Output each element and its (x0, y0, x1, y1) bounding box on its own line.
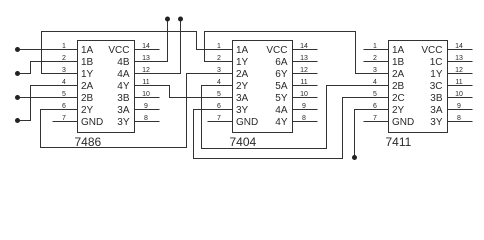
U3 pin 11 (3C) stub (448, 85, 473, 87)
U2 pin 13 (6A) stub (293, 61, 318, 63)
U1 pin 4 (2A) stub (53, 85, 78, 87)
U3 pin 5 (2C) stub (364, 97, 389, 99)
input terminal B2 dot (15, 95, 20, 100)
svg-text:6: 6 (373, 103, 377, 110)
svg-text:4: 4 (217, 79, 221, 86)
U1 pin 11 (4Y) stub (135, 85, 160, 87)
IC U3 7411 body (389, 41, 448, 133)
U3 pin 7 (GND) stub (364, 121, 389, 123)
top terminal T1 dot (165, 17, 170, 22)
svg-text:7: 7 (217, 115, 221, 122)
svg-text:2: 2 (217, 55, 221, 62)
wire input A2 to U1 pin 4 (2A) (18, 86, 78, 121)
wire input B2 to U1 pin 5 (2B) (18, 97, 78, 99)
svg-text:6Y: 6Y (275, 69, 288, 80)
U1 pin 9 (3A) stub (135, 109, 160, 111)
svg-text:6A: 6A (275, 57, 288, 68)
svg-text:10: 10 (300, 91, 308, 98)
svg-text:11: 11 (142, 79, 149, 86)
svg-text:7: 7 (373, 115, 377, 122)
svg-text:2B: 2B (81, 93, 94, 104)
svg-text:12: 12 (455, 67, 463, 74)
IC U2 7404 body (233, 41, 293, 133)
svg-text:6: 6 (62, 103, 66, 110)
wire U2 pin 6 (3Y) to U3 pin 5 (2C) (194, 98, 389, 159)
wire U1 pin 11 (4Y) to U2 pin 5 (3A) (135, 86, 233, 98)
svg-text:5: 5 (373, 91, 377, 98)
U2 pin 1 (1A) stub (208, 49, 233, 51)
input terminal A2 dot (15, 118, 20, 123)
svg-text:4B: 4B (117, 57, 130, 68)
svg-text:1A: 1A (236, 45, 249, 56)
svg-text:12: 12 (300, 67, 308, 74)
svg-text:3Y: 3Y (117, 117, 130, 128)
svg-text:2Y: 2Y (392, 105, 405, 116)
U1 pin 3 (1Y) stub (53, 73, 78, 75)
svg-text:1Y: 1Y (236, 57, 249, 68)
svg-text:3B: 3B (430, 93, 443, 104)
svg-text:1A: 1A (81, 45, 94, 56)
U3 pin 4 (2B) stub (364, 85, 389, 87)
U3 pin 2 (1B) stub (364, 61, 389, 63)
svg-text:4: 4 (373, 79, 377, 86)
svg-text:GND: GND (392, 117, 414, 128)
svg-text:3A: 3A (430, 105, 443, 116)
svg-text:GND: GND (81, 117, 103, 128)
svg-text:13: 13 (142, 55, 150, 62)
svg-text:7: 7 (62, 115, 66, 122)
svg-text:10: 10 (455, 91, 463, 98)
U2 pin 4 (2Y) stub (208, 85, 233, 87)
svg-text:7411: 7411 (386, 135, 412, 149)
wire input B1 to U1 pin 2 (1B) (18, 62, 78, 74)
wire U1 pin 6 (2Y) to U2 pin 3 (2A) (41, 74, 233, 148)
svg-text:2C: 2C (392, 93, 405, 104)
U3 pin 3 (2A) stub (364, 73, 389, 75)
svg-text:3: 3 (62, 67, 66, 74)
wire U2 pin 2 (1Y) to U3 pin 3 (2A) (205, 32, 389, 74)
svg-text:9: 9 (144, 103, 148, 110)
svg-text:6: 6 (217, 103, 221, 110)
U1 pin 14 (VCC) stub (135, 49, 160, 51)
svg-text:3B: 3B (117, 93, 130, 104)
svg-text:2A: 2A (392, 69, 405, 80)
U1 pin 12 (4A) stub (135, 73, 160, 75)
wire U2 pin 4 (2Y) to U3 pin 4 (2B) (202, 86, 389, 149)
svg-text:1: 1 (217, 43, 221, 50)
svg-text:9: 9 (302, 103, 306, 110)
U2 pin 2 (1Y) stub (208, 61, 233, 63)
svg-text:3Y: 3Y (236, 105, 249, 116)
svg-text:2A: 2A (81, 81, 94, 92)
svg-text:1A: 1A (392, 45, 405, 56)
svg-text:GND: GND (236, 117, 258, 128)
svg-text:8: 8 (302, 115, 306, 122)
U2 pin 6 (3Y) stub (208, 109, 233, 111)
svg-text:4A: 4A (275, 105, 288, 116)
svg-text:4Y: 4Y (117, 81, 130, 92)
svg-text:13: 13 (300, 55, 308, 62)
svg-text:8: 8 (457, 115, 461, 122)
wire node T2 to U1 pin 12 (4A) (135, 19, 181, 74)
svg-text:4A: 4A (117, 69, 130, 80)
svg-text:4Y: 4Y (275, 117, 288, 128)
svg-text:14: 14 (300, 43, 308, 50)
U3 pin 8 (3Y) stub (448, 121, 473, 123)
svg-text:13: 13 (455, 55, 463, 62)
svg-text:14: 14 (455, 43, 463, 50)
svg-text:8: 8 (144, 115, 148, 122)
svg-text:3: 3 (217, 67, 221, 74)
svg-text:3: 3 (373, 67, 377, 74)
svg-text:2B: 2B (392, 81, 405, 92)
svg-text:1B: 1B (81, 57, 94, 68)
svg-text:2Y: 2Y (236, 81, 249, 92)
U3 pin 13 (1C) stub (448, 61, 473, 63)
U1 pin 1 (1A) stub (53, 49, 78, 51)
svg-text:3Y: 3Y (430, 117, 443, 128)
U1 pin 7 (GND) stub (53, 121, 78, 123)
U2 pin 9 (4A) stub (293, 109, 318, 111)
U1 pin 10 (3B) stub (135, 97, 160, 99)
output terminal dot (352, 155, 357, 160)
U1 pin 8 (3Y) stub (135, 121, 160, 123)
U1 pin 2 (1B) stub (53, 61, 78, 63)
svg-text:2Y: 2Y (81, 105, 94, 116)
wire U1 pin 3 (1Y) to U2 pin 1 (1A) (42, 32, 233, 74)
U3 pin 10 (3B) stub (448, 97, 473, 99)
svg-text:5: 5 (217, 91, 221, 98)
svg-text:1Y: 1Y (430, 69, 443, 80)
U2 pin 10 (5Y) stub (293, 97, 318, 99)
U3 pin 6 (2Y) stub (364, 109, 389, 111)
IC U1 7486 body (78, 41, 135, 133)
svg-text:14: 14 (142, 43, 150, 50)
svg-text:1Y: 1Y (81, 69, 94, 80)
svg-text:11: 11 (300, 79, 307, 86)
U3 pin 9 (3A) stub (448, 109, 473, 111)
wire node T1 to U1 pin 13 (4B) (135, 19, 168, 62)
svg-text:2A: 2A (236, 69, 249, 80)
svg-text:2: 2 (62, 55, 66, 62)
U1 pin 13 (4B) stub (135, 61, 160, 63)
svg-text:4: 4 (62, 79, 66, 86)
svg-text:1: 1 (373, 43, 377, 50)
svg-text:5: 5 (62, 91, 66, 98)
U3 pin 1 (1A) stub (364, 49, 389, 51)
svg-text:12: 12 (142, 67, 150, 74)
svg-text:5A: 5A (275, 81, 288, 92)
svg-text:1B: 1B (392, 57, 405, 68)
U3 pin 12 (1Y) stub (448, 73, 473, 75)
U2 pin 8 (4Y) stub (293, 121, 318, 123)
svg-text:VCC: VCC (108, 45, 129, 56)
svg-text:3C: 3C (430, 81, 443, 92)
svg-text:1C: 1C (430, 57, 443, 68)
svg-text:VCC: VCC (421, 45, 442, 56)
svg-text:5Y: 5Y (275, 93, 288, 104)
U1 pin 5 (2B) stub (53, 97, 78, 99)
svg-text:1: 1 (62, 43, 66, 50)
svg-text:3A: 3A (117, 105, 130, 116)
input terminal B1 dot (15, 71, 20, 76)
svg-text:11: 11 (455, 79, 462, 86)
svg-text:2: 2 (373, 55, 377, 62)
svg-text:7404: 7404 (230, 135, 257, 149)
U2 pin 12 (6Y) stub (293, 73, 318, 75)
U2 pin 7 (GND) stub (208, 121, 233, 123)
U3 pin 14 (VCC) stub (448, 49, 473, 51)
svg-text:VCC: VCC (266, 45, 287, 56)
input terminal A1 dot (15, 47, 20, 52)
U2 pin 3 (2A) stub (208, 73, 233, 75)
wire U3 pin 6 (2Y) to output node (355, 110, 389, 158)
svg-text:7486: 7486 (75, 135, 102, 149)
svg-text:10: 10 (142, 91, 150, 98)
wire input A1 to U1 pin 1 (1A) (18, 49, 78, 51)
svg-text:3A: 3A (236, 93, 249, 104)
U2 pin 5 (3A) stub (208, 97, 233, 99)
U2 pin 14 (VCC) stub (293, 49, 318, 51)
top terminal T2 dot (178, 17, 183, 22)
U2 pin 11 (5A) stub (293, 85, 318, 87)
svg-text:9: 9 (457, 103, 461, 110)
U1 pin 6 (2Y) stub (53, 109, 78, 111)
